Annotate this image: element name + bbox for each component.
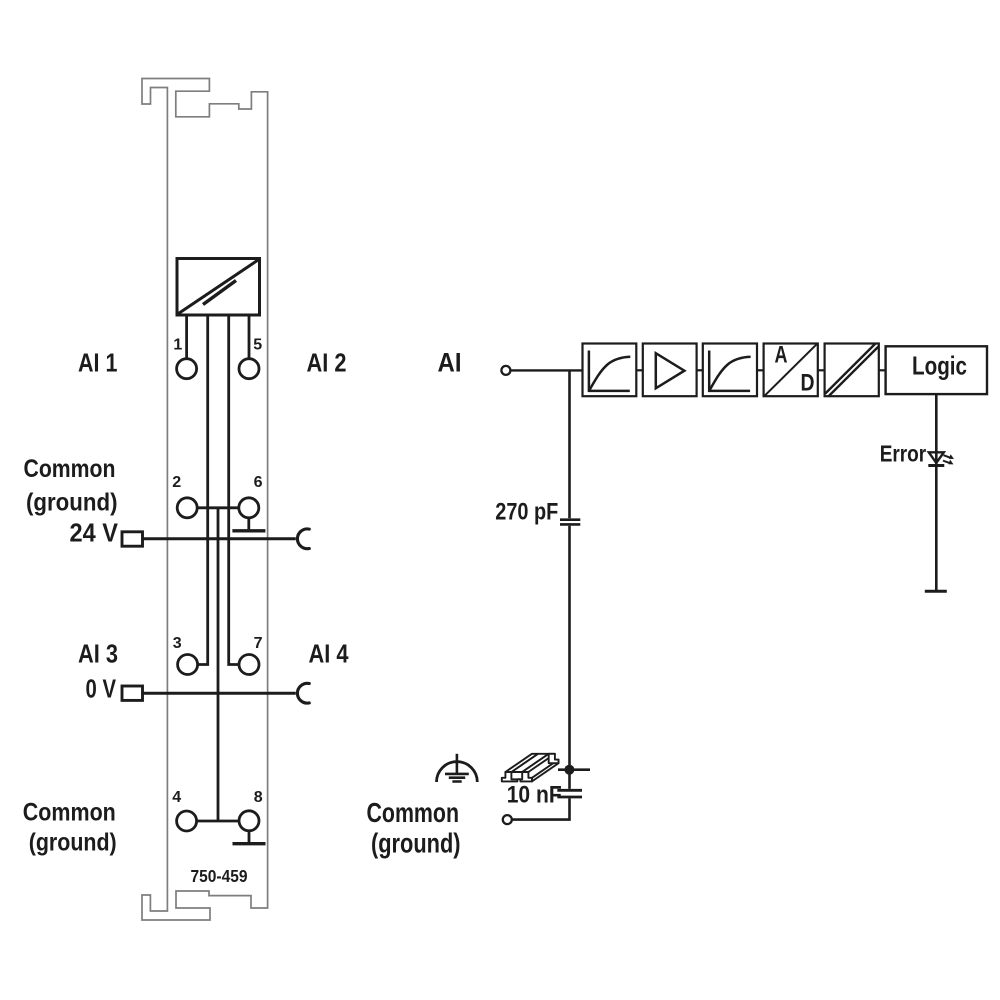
LED end bar — [925, 590, 947, 593]
block Logic — [886, 346, 987, 394]
svg-text:D: D — [801, 370, 815, 397]
svg-text:270 pF: 270 pF — [495, 498, 558, 525]
pin 2 — [177, 498, 197, 518]
common terminal circle — [503, 815, 512, 824]
pin 8 rail contact stub — [248, 832, 251, 843]
pin 7 — [239, 655, 259, 675]
pin 6 — [239, 498, 259, 518]
block amplifier — [643, 344, 697, 397]
svg-text:6: 6 — [254, 474, 263, 491]
earth ground stem — [456, 754, 459, 775]
LED D1 triangle — [929, 452, 944, 463]
wire block3 to block4 — [757, 369, 764, 371]
LED arrow 1 — [944, 455, 951, 458]
wire pin7 from transformer — [229, 316, 239, 665]
block A/D converter — [764, 344, 818, 397]
24V power jumper contact — [297, 529, 309, 549]
svg-text:Common: Common — [24, 455, 116, 483]
svg-text:8: 8 — [254, 789, 263, 806]
24V rail wire — [143, 537, 296, 540]
0V feed rectangle terminal — [122, 686, 143, 700]
svg-text:AI 3: AI 3 — [78, 638, 118, 668]
wire pin2 to pin6 — [198, 506, 239, 509]
svg-text:10 nF: 10 nF — [507, 782, 562, 809]
wire block5 to logic — [879, 369, 886, 371]
svg-text:750-459: 750-459 — [191, 866, 248, 886]
svg-text:Logic: Logic — [912, 350, 967, 380]
svg-text:24 V: 24 V — [70, 518, 119, 548]
svg-text:2: 2 — [172, 474, 181, 491]
wire block4 to block5 — [818, 369, 825, 371]
svg-text:AI 2: AI 2 — [307, 347, 347, 377]
svg-text:3: 3 — [173, 635, 182, 652]
svg-text:4: 4 — [172, 789, 181, 806]
wire rail to junction — [558, 768, 590, 771]
capacitor 270 pF plates — [560, 520, 580, 525]
module outline 750-459 body — [142, 79, 268, 921]
earth ground bars — [445, 774, 469, 782]
wire AI input to filter — [511, 369, 583, 371]
svg-text:Error: Error — [880, 440, 927, 466]
svg-text:(ground): (ground) — [371, 828, 461, 859]
wire pin3 from transformer — [198, 316, 208, 665]
earth ground symbol arc — [437, 762, 478, 782]
svg-text:0 V: 0 V — [86, 674, 117, 704]
wire 270pF to junction — [568, 526, 571, 789]
0V rail wire — [143, 692, 296, 695]
pin 6 rail contact bar — [232, 529, 265, 532]
pin 8 rail contact bar — [233, 842, 266, 845]
junction dot — [564, 765, 574, 775]
wire block2 to block3 — [697, 369, 703, 371]
svg-text:(ground): (ground) — [26, 489, 118, 517]
pin 6 rail contact stub — [247, 519, 250, 530]
svg-text:5: 5 — [253, 337, 262, 354]
wire pin5 from transformer — [248, 316, 251, 358]
wire logic down to LED — [935, 394, 938, 590]
transformer U1 box — [177, 259, 260, 316]
wire pin4 to pin8 — [198, 820, 239, 823]
pin 8 — [239, 811, 259, 831]
AI input terminal circle — [501, 366, 510, 375]
wire common bus down — [217, 508, 220, 821]
pin 1 — [177, 359, 197, 379]
svg-text:Common: Common — [367, 797, 460, 828]
wire 10nF to common terminal — [512, 798, 569, 819]
24V feed rectangle terminal — [122, 532, 143, 546]
svg-text:7: 7 — [254, 635, 263, 652]
pin 3 — [178, 655, 198, 675]
wire pin1 from transformer — [185, 316, 188, 358]
capacitor 10 nF plates — [557, 790, 582, 797]
wire block1 to block2 — [636, 369, 643, 371]
DIN rail icon — [502, 754, 559, 782]
svg-text:AI 1: AI 1 — [78, 347, 118, 377]
block filter 1 — [583, 344, 637, 397]
block filter 2 — [703, 344, 757, 397]
pin 4 — [177, 811, 197, 831]
transformer U1 short diagonal — [203, 281, 236, 305]
transformer U1 diagonal — [179, 260, 259, 314]
svg-text:(ground): (ground) — [29, 829, 117, 857]
block isolation — [825, 344, 879, 397]
0V power jumper contact — [297, 683, 309, 703]
LED arrow 2 — [943, 461, 950, 464]
svg-text:AI 4: AI 4 — [309, 638, 349, 668]
pin 5 — [239, 359, 259, 379]
svg-text:AI: AI — [438, 348, 462, 378]
LED D1 cathode bar — [928, 464, 944, 467]
svg-text:Common: Common — [23, 799, 116, 827]
svg-text:A: A — [775, 341, 788, 368]
wire branch 270pF down — [568, 370, 571, 518]
svg-text:1: 1 — [173, 337, 182, 354]
